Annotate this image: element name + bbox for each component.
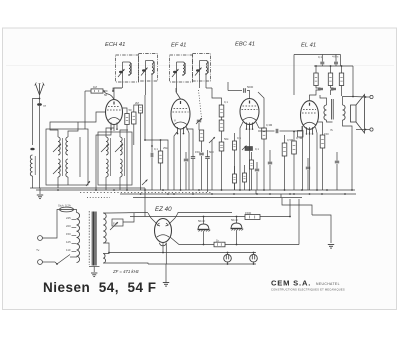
svg-text:245: 245 bbox=[66, 216, 71, 220]
transformer core bbox=[89, 211, 96, 266]
wire cap1 bottom bbox=[203, 232, 205, 245]
wire bandfilter top 2 bbox=[68, 124, 78, 137]
junction bbox=[140, 193, 142, 195]
wire coupling to EBC grid bbox=[247, 91, 250, 99]
IF can 2b bbox=[193, 54, 211, 82]
svg-text:50mF: 50mF bbox=[198, 219, 205, 223]
wire R14 bottom bbox=[331, 86, 334, 89]
resistor AGC 1M bbox=[91, 89, 103, 93]
mains terminal 2 bbox=[38, 260, 43, 265]
svg-text:0,5: 0,5 bbox=[237, 136, 241, 140]
value label bbox=[296, 136, 303, 140]
wire R15 top bbox=[341, 66, 343, 73]
wire R13 top bbox=[315, 66, 317, 73]
wire screen rail bbox=[314, 65, 353, 67]
wire L4 to bus bbox=[105, 177, 107, 190]
svg-text:0,1: 0,1 bbox=[255, 147, 259, 151]
junction bbox=[289, 216, 291, 218]
value label bbox=[154, 147, 158, 151]
potentiometer wiper arrow bbox=[242, 146, 247, 151]
wire R15 bottom bbox=[341, 86, 343, 97]
wire stub bbox=[77, 122, 79, 124]
coil IF1b bbox=[152, 61, 154, 75]
wire OT area link bbox=[318, 121, 320, 123]
core line IF1a bbox=[131, 63, 133, 74]
wire can2b down bbox=[227, 82, 229, 91]
value label bbox=[104, 93, 108, 97]
wire R2 down bbox=[133, 124, 135, 145]
wire osc coil top2 bbox=[120, 130, 128, 137]
wire pad2 top bbox=[192, 150, 194, 157]
label EL41 bbox=[301, 43, 316, 49]
wire HT bottom bbox=[103, 243, 109, 253]
value label bbox=[66, 232, 71, 236]
junction bbox=[326, 189, 328, 191]
junction bbox=[309, 193, 311, 195]
antenna trimmer capacitor bbox=[30, 148, 34, 151]
label EF41 bbox=[171, 43, 186, 49]
wire OT sec bottom down bbox=[343, 120, 353, 190]
wire IF1a top bar bbox=[123, 61, 130, 63]
value label bbox=[216, 239, 220, 243]
svg-text:500: 500 bbox=[209, 150, 214, 154]
junction bbox=[211, 193, 213, 195]
terminal circle top bbox=[370, 95, 373, 98]
junction bbox=[263, 189, 265, 191]
core line of L1 bbox=[34, 156, 36, 175]
fuse bbox=[60, 207, 74, 212]
terminal circle bottom bbox=[370, 128, 373, 131]
faint scan line bbox=[6, 65, 394, 67]
value label bbox=[224, 137, 229, 141]
arrow on Ers bbox=[110, 222, 118, 230]
wire padder top bbox=[151, 146, 153, 153]
core line IF2b bbox=[208, 62, 210, 74]
core output transformer bbox=[332, 99, 334, 120]
junction bbox=[351, 189, 353, 191]
resistor R7 bbox=[219, 120, 224, 131]
wire AGC to grid stub bbox=[103, 90, 108, 92]
resistor R11 bbox=[282, 143, 287, 156]
coil L3b bbox=[66, 159, 68, 177]
capacitor C det bbox=[255, 169, 259, 171]
junction bbox=[227, 263, 229, 265]
svg-text:2M: 2M bbox=[135, 101, 140, 105]
wire to R10 bbox=[259, 127, 264, 129]
junction bbox=[160, 139, 162, 141]
wire ECH41 cathode down bbox=[113, 125, 115, 132]
variable capacitor arrow 1 bbox=[196, 118, 202, 124]
svg-text:Ers: Ers bbox=[113, 222, 118, 226]
band switch link dashed bbox=[80, 192, 212, 194]
wire EBC41 cathode down bbox=[249, 124, 251, 190]
core of L5 bbox=[124, 138, 126, 176]
wire bus link 1 bbox=[255, 190, 257, 194]
svg-text:0,1: 0,1 bbox=[318, 55, 322, 59]
wire EBC41 leg3 bbox=[256, 122, 259, 128]
coil L2b bbox=[58, 159, 60, 177]
wire R20 top bbox=[234, 166, 236, 174]
junction bbox=[293, 193, 295, 195]
wire HT top bbox=[103, 212, 148, 215]
wire filter to ECH grid bbox=[58, 112, 106, 122]
wire cap2 top bbox=[236, 217, 238, 224]
wire EL41 cathode down bbox=[302, 126, 304, 190]
junction bbox=[203, 244, 205, 246]
wire ECH41 leg bbox=[96, 129, 111, 191]
trimmer capacitor IF1b bbox=[142, 69, 146, 71]
junction bbox=[236, 216, 238, 218]
tube EL41 bbox=[301, 101, 319, 135]
wire OT primary bottom bbox=[327, 120, 333, 122]
wire C det top bbox=[256, 162, 258, 169]
wire inside box1 bbox=[79, 137, 81, 177]
svg-text:150: 150 bbox=[324, 132, 329, 136]
junction bbox=[203, 216, 205, 218]
wire bandfilter top 1 bbox=[50, 122, 58, 137]
label ZF frequency bbox=[112, 269, 140, 274]
dashed link transformer bbox=[87, 197, 110, 199]
wire OT primary top bbox=[320, 95, 327, 105]
capacitor C screen 1 bbox=[320, 62, 324, 64]
bandfilter box 2 bbox=[98, 132, 132, 185]
junction bbox=[128, 74, 130, 76]
wire EZ40 plate left bbox=[148, 213, 157, 224]
wire mains live bbox=[42, 210, 59, 239]
junction bbox=[236, 244, 238, 246]
wire cap2 bottom bbox=[236, 231, 238, 245]
junction bbox=[221, 189, 223, 191]
wire IF2b left leg bbox=[199, 61, 201, 76]
wire pot down bbox=[211, 140, 213, 190]
junction bbox=[151, 145, 153, 147]
resistor R8 bbox=[219, 142, 224, 151]
wire pad3 top bbox=[207, 150, 209, 157]
svg-text:NEUCHATEL: NEUCHATEL bbox=[316, 282, 340, 286]
wire plate to IF1 bbox=[114, 87, 122, 89]
wire C det down bbox=[256, 172, 258, 190]
wire R10 down bbox=[263, 139, 265, 190]
coil L5a bbox=[120, 137, 122, 155]
value label bbox=[195, 150, 200, 154]
wire R12 down bbox=[293, 154, 295, 190]
label EBC41 bbox=[235, 42, 255, 48]
value label bbox=[237, 136, 241, 140]
trimmer capacitor IF2a bbox=[173, 71, 177, 73]
resistor R6 screen bbox=[219, 105, 224, 117]
wire osc coil top bbox=[106, 128, 114, 137]
tube EF41 bbox=[171, 99, 190, 134]
svg-text:125: 125 bbox=[66, 240, 71, 244]
trimmer capacitor IF2b bbox=[196, 69, 200, 71]
wire C out top bbox=[307, 158, 309, 167]
wire R8 down bbox=[221, 151, 223, 190]
cathode RC block EL41 bbox=[298, 131, 304, 138]
capacitor C tone bbox=[335, 161, 339, 163]
value label bbox=[247, 85, 254, 89]
value label bbox=[129, 108, 133, 112]
wire C af top bbox=[269, 150, 271, 162]
wire IF2b top bar bbox=[200, 60, 207, 62]
capacitor C pad2 bbox=[191, 157, 195, 159]
wire core to ground bbox=[93, 267, 95, 273]
coil output transformer secondary bbox=[343, 105, 346, 120]
switch wiper arrow bbox=[86, 181, 90, 186]
wire bus link 2 bbox=[280, 194, 282, 198]
wire fuse to primary bbox=[74, 210, 77, 213]
wire cap1 top bbox=[203, 217, 205, 225]
wire L1 to bus bbox=[32, 176, 34, 188]
resistor R14 bbox=[328, 73, 332, 86]
resistor R22 bbox=[250, 160, 254, 169]
wire EZ40 heater leg bbox=[162, 243, 164, 253]
value label bbox=[330, 128, 334, 132]
wire EZ40 plate right bbox=[169, 213, 178, 224]
wire EF41 cathode down bbox=[180, 129, 182, 190]
svg-text:~: ~ bbox=[36, 248, 40, 254]
wire osc line bbox=[145, 95, 168, 190]
wire C screen2 bottom bbox=[335, 65, 337, 67]
wire IF1b down bbox=[145, 75, 147, 96]
wire EF41 leg3 bbox=[186, 126, 189, 190]
wire EL41 leg3 down bbox=[316, 127, 318, 190]
coil output transformer primary bbox=[324, 105, 327, 120]
wire IF2a top bar bbox=[177, 61, 184, 63]
wire R5 down bbox=[201, 141, 203, 152]
wire under C osc bbox=[201, 156, 203, 190]
junction bbox=[144, 139, 146, 141]
resistor R3 bbox=[139, 105, 143, 113]
junction bbox=[344, 193, 346, 195]
grid cap lead EF41 bbox=[176, 92, 181, 99]
coil L4b bbox=[106, 159, 108, 177]
wire IF out bbox=[228, 90, 236, 92]
junction bbox=[198, 189, 200, 191]
trimmer arrow IF1a bbox=[118, 69, 125, 77]
wire R6-R7 bbox=[221, 117, 223, 120]
junction bbox=[330, 65, 332, 67]
wire B+ up right bbox=[289, 199, 291, 217]
coil IF2a bbox=[183, 62, 185, 75]
junction bbox=[233, 193, 235, 195]
junction bbox=[56, 263, 58, 265]
capacitor C af bbox=[268, 162, 272, 164]
svg-text:EZ 40: EZ 40 bbox=[155, 206, 172, 213]
wire C screen1 to rail bbox=[321, 55, 323, 59]
trimmer arrow IF1b bbox=[141, 68, 148, 76]
wire C af down bbox=[269, 165, 271, 190]
wire ECH plate up bbox=[113, 88, 115, 100]
wire R4 down bbox=[160, 163, 162, 190]
trimmer arrow L4 bbox=[101, 144, 109, 152]
wire lamp1 bottom bbox=[227, 262, 229, 264]
junction bbox=[341, 65, 343, 67]
value label bbox=[198, 219, 205, 223]
svg-text:4-8m: 4-8m bbox=[332, 55, 339, 59]
svg-text:1500: 1500 bbox=[245, 211, 252, 215]
dial lamp resistor Ers bbox=[112, 219, 123, 226]
IF can 1b bbox=[139, 54, 158, 82]
wire pad3 down bbox=[207, 159, 209, 192]
wire main bus 1 bbox=[36, 189, 355, 191]
wire IF1a left leg bbox=[122, 62, 124, 76]
resistor R18 1500ohm bbox=[245, 215, 260, 220]
wire R1 down bbox=[126, 125, 128, 191]
junction bbox=[113, 189, 115, 191]
value label bbox=[174, 118, 176, 122]
wire C screen1 bottom bbox=[321, 65, 323, 67]
coil L5b bbox=[120, 159, 122, 177]
tuning gang link dashed bbox=[199, 90, 202, 118]
svg-text:50mF: 50mF bbox=[231, 218, 238, 222]
capacitor C coupling bbox=[244, 88, 246, 93]
wire main bus 2 bbox=[120, 193, 356, 195]
trimmer arrow L3 bbox=[53, 166, 61, 174]
junction bbox=[151, 73, 153, 75]
junction bbox=[256, 193, 258, 195]
wire B+ top rail bbox=[294, 54, 341, 56]
junction bbox=[144, 189, 146, 191]
wire EL41 leg down bbox=[309, 132, 311, 190]
volume pot arrow bbox=[209, 137, 215, 143]
wire R21 top bbox=[244, 165, 246, 173]
IF can 1a (ECH41 plate) bbox=[116, 55, 139, 82]
core line IF1b bbox=[154, 62, 156, 74]
wire lamp2 bottom bbox=[253, 262, 255, 264]
junction bbox=[249, 189, 251, 191]
value label bbox=[58, 204, 71, 208]
resistor R21 bbox=[243, 173, 247, 182]
value label bbox=[43, 104, 46, 108]
wire core bottom bracket bbox=[89, 266, 100, 268]
wire to EL41 grid bbox=[294, 126, 302, 131]
svg-text:0,1: 0,1 bbox=[224, 100, 228, 104]
svg-text:0,5M: 0,5M bbox=[287, 138, 294, 142]
wire C screen2 to rail bbox=[335, 55, 337, 59]
resistor R10 plate load bbox=[262, 128, 267, 139]
capacitor tuning gang 1 bbox=[197, 120, 201, 122]
coil HT secondary bbox=[103, 213, 106, 243]
wire lamp2 top bbox=[253, 253, 255, 255]
wire R11 down bbox=[284, 156, 286, 190]
coil IF2b bbox=[206, 61, 207, 75]
ground left bbox=[37, 195, 43, 199]
resistor R1 osc grid bbox=[125, 114, 129, 125]
wire R6 top bbox=[212, 88, 222, 105]
wire EBC41 leg1 bbox=[240, 122, 243, 190]
capacitor C bypass 1 bbox=[318, 88, 323, 89]
tube ECH41 bbox=[106, 100, 123, 130]
trimmer arrow IF2b bbox=[195, 68, 202, 76]
coil L3a bbox=[66, 137, 68, 155]
wire R21 down bbox=[244, 182, 246, 190]
wire heater rail 1 bbox=[109, 252, 256, 254]
svg-text:150: 150 bbox=[66, 232, 71, 236]
svg-text:ECH 41: ECH 41 bbox=[105, 42, 125, 48]
wire R4 top bbox=[160, 140, 162, 151]
wire R14 top bbox=[330, 66, 332, 73]
value label bbox=[245, 211, 252, 215]
wire R20 down bbox=[234, 183, 236, 190]
core line IF2a bbox=[185, 63, 187, 74]
junction bbox=[162, 189, 164, 191]
junction bbox=[316, 189, 318, 191]
wire EBC out bbox=[258, 130, 270, 132]
value label bbox=[224, 100, 228, 104]
wire top rail elbow down bbox=[340, 55, 342, 67]
wire C tone down bbox=[336, 164, 338, 190]
wire L2 to bus bbox=[57, 177, 59, 188]
wire IF2a left leg bbox=[176, 62, 178, 76]
svg-text:EF 41: EF 41 bbox=[171, 43, 186, 49]
wire heater top bbox=[103, 253, 109, 254]
antenna bbox=[35, 83, 45, 96]
junction bbox=[192, 193, 194, 195]
resistor R9 bbox=[233, 141, 237, 150]
svg-text:EBC 41: EBC 41 bbox=[235, 42, 255, 48]
value label bbox=[318, 55, 322, 59]
wire IF1 to resistor node bbox=[113, 88, 122, 91]
antenna series capacitor bbox=[37, 103, 42, 106]
wire R17 top bbox=[320, 122, 323, 135]
IF can 2a (EF41 grid) bbox=[170, 55, 193, 82]
wire Ers link bbox=[123, 213, 134, 223]
svg-text:25k: 25k bbox=[163, 146, 168, 150]
resistor R13 bbox=[314, 73, 318, 86]
capacitor C grid EL41 bbox=[276, 129, 278, 133]
wire R14 to screen bbox=[331, 90, 334, 95]
junction bbox=[253, 263, 255, 265]
svg-text:220: 220 bbox=[66, 224, 71, 228]
wire top rail left drop bbox=[293, 55, 295, 96]
wire EZ40 cathode to B+ bbox=[170, 237, 214, 245]
trimmer capacitor IF1a bbox=[119, 71, 123, 73]
wire C screen2 top bbox=[335, 58, 337, 62]
svg-text:50: 50 bbox=[104, 93, 108, 97]
value label bbox=[266, 123, 273, 127]
wire gang down bbox=[198, 123, 200, 130]
junction bbox=[321, 193, 323, 195]
wire R2 top bbox=[134, 105, 140, 112]
wire padder bottom bbox=[151, 158, 153, 191]
value label bbox=[255, 147, 259, 151]
wire OT sec top bbox=[343, 97, 354, 106]
wire pad2 down bbox=[192, 159, 194, 190]
junction bbox=[57, 189, 59, 191]
wire R11 top bbox=[284, 135, 286, 143]
wire to terminal bottom bbox=[366, 129, 370, 131]
svg-text:Sich. 0,2A: Sich. 0,2A bbox=[58, 204, 71, 208]
junction bbox=[112, 90, 114, 92]
wire R17 down bbox=[322, 148, 324, 190]
trimmer arrow L2 bbox=[53, 144, 61, 152]
capacitor C pad3 bbox=[205, 157, 210, 159]
junction bbox=[352, 96, 354, 98]
junction bbox=[301, 189, 303, 191]
trimmer arrow IF2a bbox=[172, 69, 179, 77]
wire main bus 3 bbox=[133, 197, 302, 199]
ground right bbox=[328, 245, 334, 249]
wire antenna down bbox=[39, 106, 41, 128]
wire antenna branch bbox=[33, 99, 40, 146]
label ECH41 bbox=[105, 42, 125, 48]
value label bbox=[332, 55, 339, 59]
wire to switch bbox=[55, 262, 57, 264]
wire R10 top to plate bbox=[258, 92, 264, 128]
wire bus to HT bbox=[144, 188, 146, 217]
wire down right bbox=[312, 215, 331, 243]
mains switch lever bbox=[57, 255, 70, 265]
